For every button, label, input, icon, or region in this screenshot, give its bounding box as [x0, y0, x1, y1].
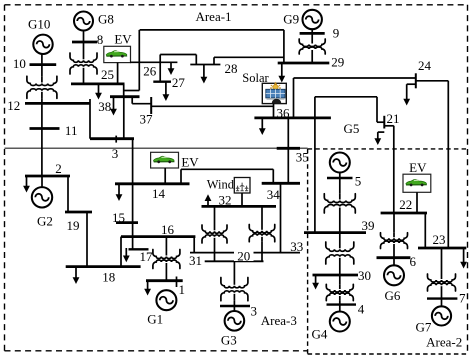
svg-text:26: 26 [143, 64, 157, 79]
svg-text:32: 32 [219, 193, 232, 208]
svg-text:G8: G8 [98, 11, 114, 26]
svg-text:15: 15 [112, 210, 125, 225]
svg-text:21: 21 [387, 111, 400, 126]
svg-text:29: 29 [331, 55, 344, 70]
svg-text:14: 14 [152, 186, 166, 201]
svg-text:31: 31 [189, 253, 202, 268]
svg-text:7: 7 [459, 291, 466, 306]
svg-text:35: 35 [296, 150, 309, 165]
svg-text:Solar: Solar [242, 71, 269, 85]
svg-text:G10: G10 [28, 16, 50, 31]
svg-text:33: 33 [290, 239, 303, 254]
svg-text:Area-3: Area-3 [261, 313, 297, 328]
svg-text:23: 23 [433, 232, 446, 247]
svg-text:G7: G7 [416, 319, 432, 334]
svg-text:19: 19 [67, 218, 80, 233]
svg-text:EV: EV [409, 160, 427, 175]
svg-text:17: 17 [140, 249, 154, 264]
svg-text:G5: G5 [344, 121, 360, 136]
svg-text:25: 25 [101, 67, 114, 82]
svg-text:38: 38 [98, 99, 111, 114]
svg-text:3: 3 [112, 146, 119, 161]
svg-text:5: 5 [355, 174, 362, 189]
svg-text:34: 34 [267, 187, 281, 202]
svg-text:18: 18 [102, 270, 115, 285]
svg-text:10: 10 [13, 56, 26, 71]
svg-text:37: 37 [140, 112, 154, 127]
svg-text:4: 4 [358, 302, 365, 317]
svg-text:28: 28 [225, 61, 238, 76]
svg-text:36: 36 [277, 106, 291, 121]
svg-text:1: 1 [179, 282, 186, 297]
svg-text:39: 39 [362, 218, 375, 233]
svg-text:2: 2 [55, 161, 62, 176]
svg-text:G6: G6 [385, 288, 401, 303]
svg-text:6: 6 [409, 254, 416, 269]
svg-text:16: 16 [161, 222, 175, 237]
svg-text:G9: G9 [283, 12, 299, 27]
svg-text:22: 22 [399, 197, 412, 212]
svg-text:G4: G4 [312, 327, 328, 342]
svg-text:12: 12 [7, 98, 20, 113]
svg-text:11: 11 [65, 123, 78, 138]
svg-text:24: 24 [418, 58, 432, 73]
svg-text:8: 8 [97, 32, 104, 47]
svg-text:20: 20 [237, 249, 250, 264]
svg-text:27: 27 [172, 75, 186, 90]
svg-text:G2: G2 [37, 214, 53, 229]
svg-text:EV: EV [181, 155, 199, 170]
svg-text:Area-2: Area-2 [426, 335, 462, 350]
svg-text:3: 3 [250, 304, 257, 319]
svg-text:Wind: Wind [207, 178, 235, 192]
svg-text:G1: G1 [147, 311, 163, 326]
svg-text:EV: EV [114, 32, 132, 47]
svg-text:30: 30 [358, 268, 371, 283]
svg-text:9: 9 [333, 25, 340, 40]
svg-text:Area-1: Area-1 [195, 9, 231, 24]
svg-text:G3: G3 [221, 333, 237, 348]
